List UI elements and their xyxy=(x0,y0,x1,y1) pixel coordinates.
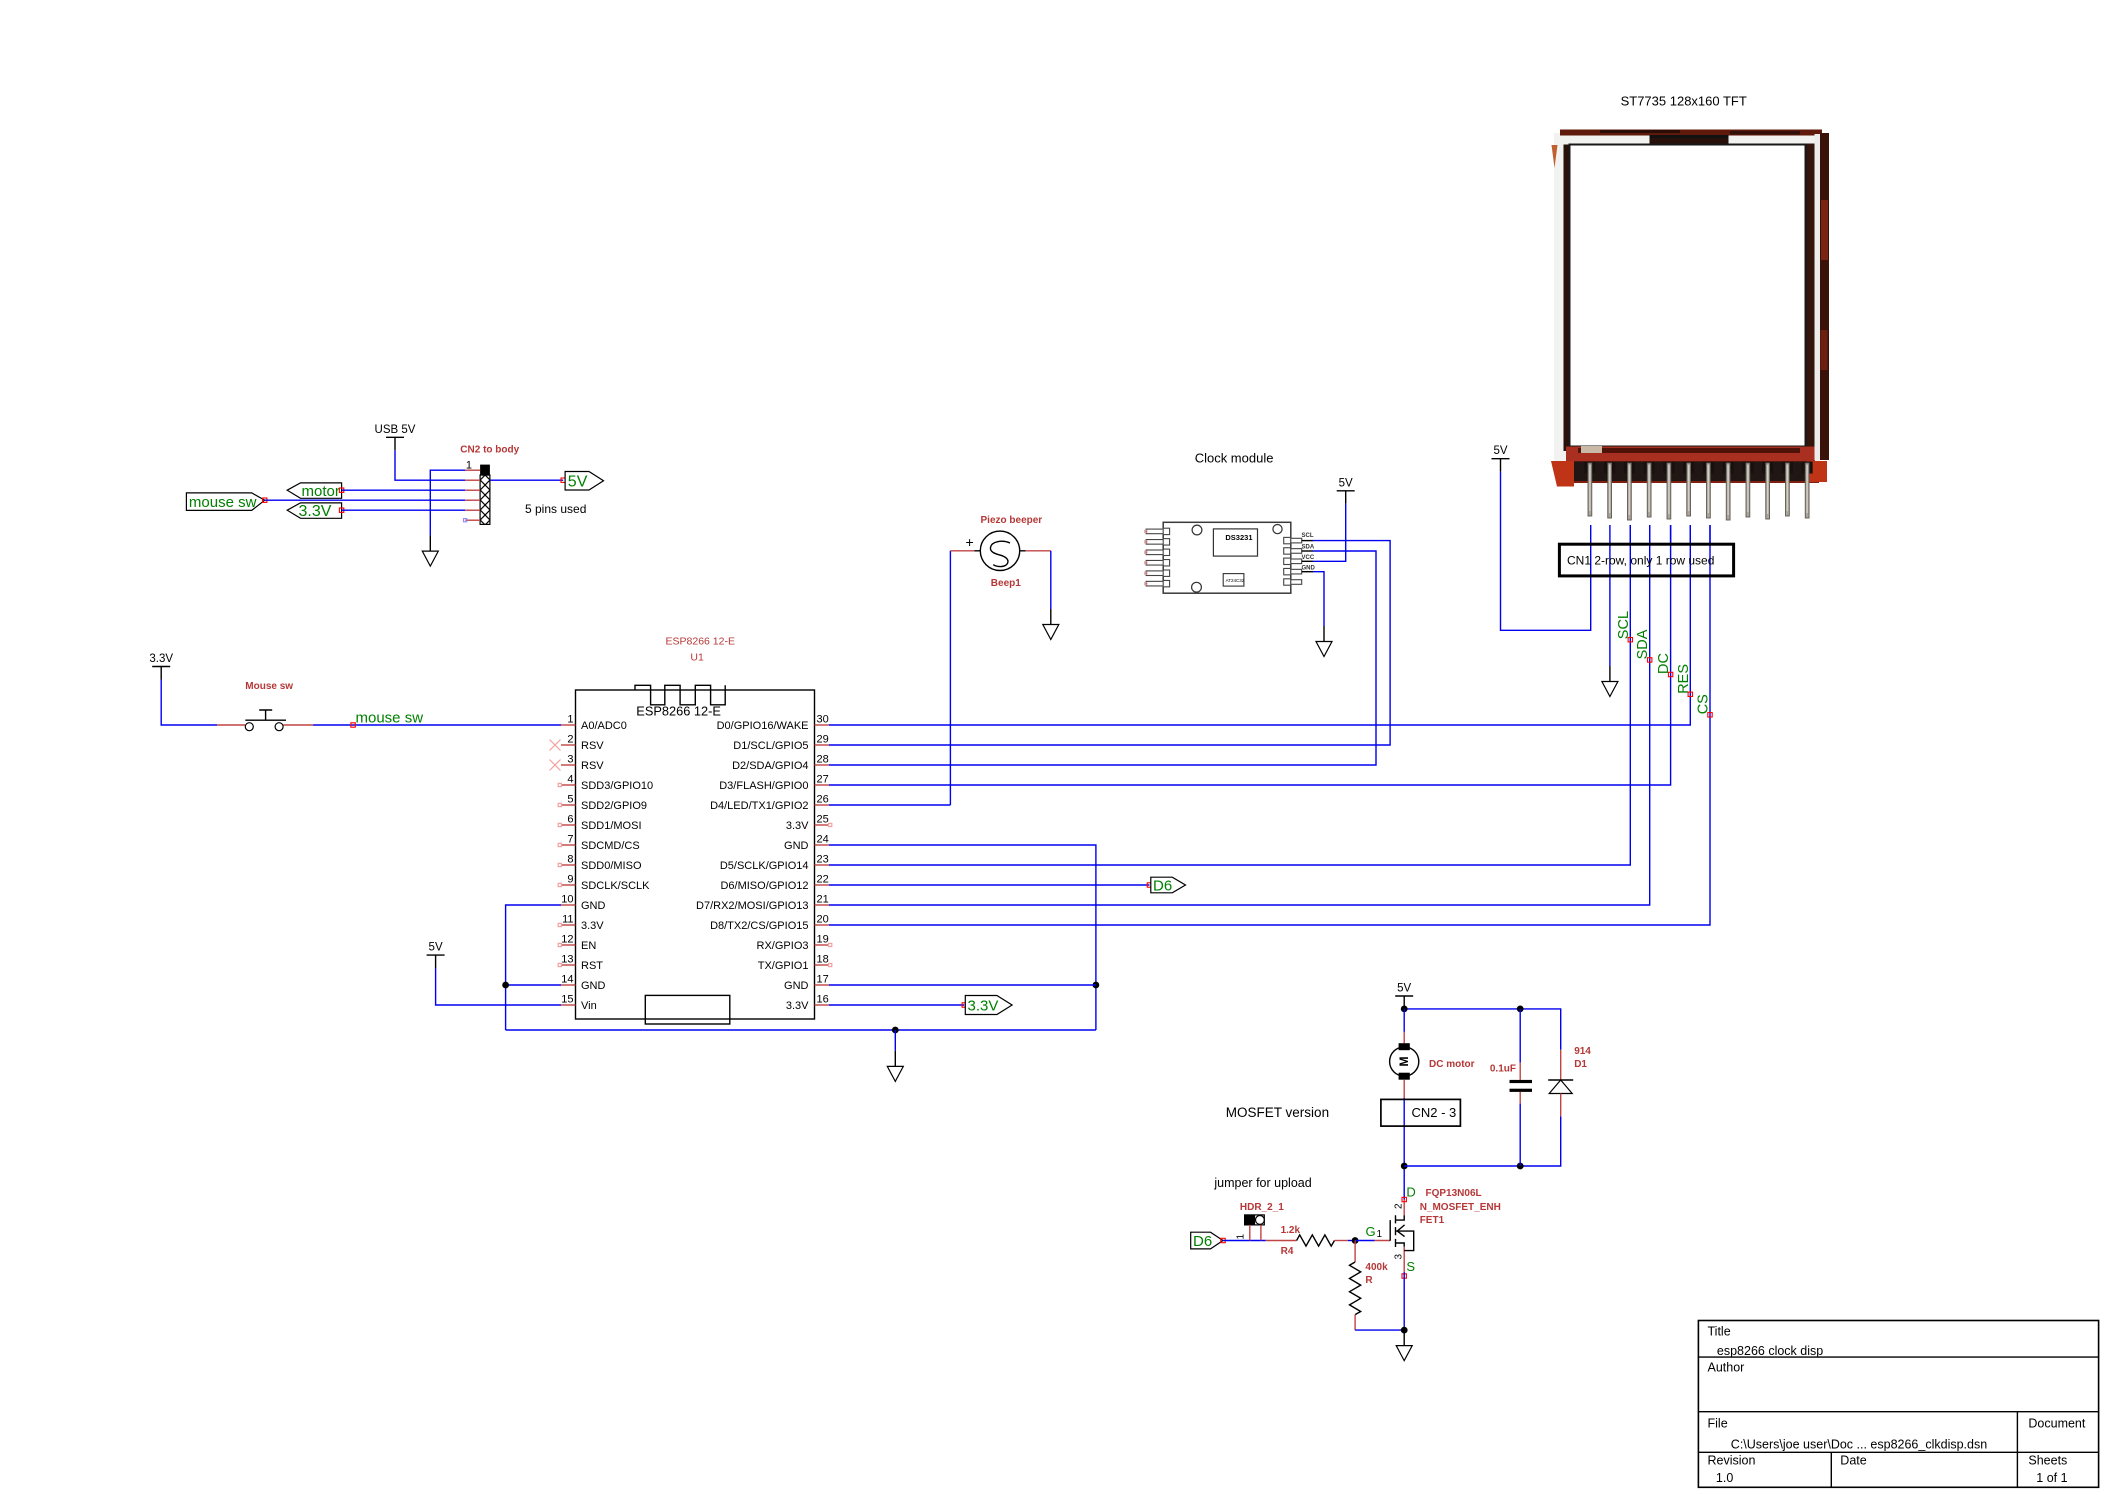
svg-text:D: D xyxy=(1406,1185,1415,1200)
wire net SDA(I2C): U1 pin28 to clock module xyxy=(829,551,1376,765)
wire U1 pin14 GND xyxy=(506,984,561,986)
power symbol USB 5V xyxy=(375,424,416,451)
wire switch to U1 pin1 xyxy=(313,724,561,726)
svg-text:Clock module: Clock module xyxy=(1195,451,1274,466)
svg-text:18: 18 xyxy=(817,954,829,966)
net tag motor xyxy=(287,483,341,500)
wire mouse sw tag to CN2 pin4 xyxy=(265,499,466,501)
title block xyxy=(1698,1321,2098,1488)
connection point 3.3V tag xyxy=(339,508,343,512)
power symbol 5V clock xyxy=(1337,477,1355,504)
svg-text:HDR_2_1: HDR_2_1 xyxy=(1240,1202,1284,1213)
svg-text:Beep1: Beep1 xyxy=(991,578,1021,589)
svg-text:ST7735 128x160 TFT: ST7735 128x160 TFT xyxy=(1621,94,1747,109)
U1 pin 28 D2/SDA/GPIO4 xyxy=(732,754,829,773)
net tag mouse sw xyxy=(186,493,264,511)
svg-text:DC motor: DC motor xyxy=(1429,1059,1475,1070)
svg-text:RX/GPIO3: RX/GPIO3 xyxy=(757,940,809,952)
junction cap bottom xyxy=(1517,1163,1524,1170)
svg-text:7: 7 xyxy=(567,834,573,846)
connection point D6 tag xyxy=(1147,883,1151,887)
svg-text:1.0: 1.0 xyxy=(1716,1471,1733,1485)
svg-text:5: 5 xyxy=(567,794,573,806)
wire net DC: U1 pin27 to TFT pin5 xyxy=(829,525,1671,785)
junction FET drain rail xyxy=(1401,1163,1408,1170)
svg-text:SDCLK/SCLK: SDCLK/SCLK xyxy=(581,880,650,892)
svg-text:12: 12 xyxy=(561,934,573,946)
svg-text:19: 19 xyxy=(817,934,829,946)
MOSFET FET1 FQP13N06L xyxy=(1366,1185,1501,1275)
U1 pin 17 GND xyxy=(784,974,829,993)
svg-text:22: 22 xyxy=(817,874,829,886)
svg-text:FQP13N06L: FQP13N06L xyxy=(1426,1188,1482,1199)
svg-text:Date: Date xyxy=(1840,1454,1866,1468)
svg-text:S: S xyxy=(1406,1259,1415,1274)
svg-text:SDD3/GPIO10: SDD3/GPIO10 xyxy=(581,780,653,792)
switch Mouse sw xyxy=(217,681,313,731)
svg-text:CN2 - 3: CN2 - 3 xyxy=(1412,1105,1457,1120)
svg-text:1 of 1: 1 of 1 xyxy=(2036,1471,2067,1485)
svg-text:5V: 5V xyxy=(429,942,443,954)
svg-text:Piezo beeper: Piezo beeper xyxy=(981,515,1043,526)
wire 5V to U1 pin15 Vin xyxy=(436,968,561,1005)
svg-text:16: 16 xyxy=(817,994,829,1006)
svg-text:3: 3 xyxy=(1394,1254,1405,1260)
svg-text:C:\Users\joe user\Doc ... esp8: C:\Users\joe user\Doc ... esp8266_clkdis… xyxy=(1731,1438,1987,1452)
wire beeper right to ground xyxy=(1050,551,1052,609)
wire gate node to FET gate xyxy=(1355,1240,1375,1242)
wire net D6: U1 pin22 to tag xyxy=(829,884,1150,886)
svg-text:VCC: VCC xyxy=(1302,555,1315,561)
U1 pin 10 GND xyxy=(561,894,606,913)
svg-text:U1: U1 xyxy=(690,652,704,664)
connector CN2 to body xyxy=(460,445,519,525)
svg-text:N_MOSFET_ENH: N_MOSFET_ENH xyxy=(1420,1202,1501,1213)
svg-text:D0/GPIO16/WAKE: D0/GPIO16/WAKE xyxy=(717,720,809,732)
U1 pin 27 D3/FLASH/GPIO0 xyxy=(719,774,829,793)
DC motor M xyxy=(1390,1009,1475,1098)
clock module DS3231 xyxy=(1145,451,1316,594)
svg-text:13: 13 xyxy=(561,954,573,966)
svg-text:SDD1/MOSI: SDD1/MOSI xyxy=(581,820,642,832)
resistor R 400k xyxy=(1350,1241,1405,1331)
svg-text:D1: D1 xyxy=(1574,1059,1587,1070)
connection point FET drain xyxy=(1402,1197,1406,1201)
svg-text:mouse sw: mouse sw xyxy=(356,710,424,727)
svg-text:9: 9 xyxy=(567,874,573,886)
TFT display module ST7735 photo xyxy=(1551,94,1829,487)
svg-text:SDA: SDA xyxy=(1635,629,1651,659)
svg-text:SDCMD/CS: SDCMD/CS xyxy=(581,840,640,852)
svg-text:1.2k: 1.2k xyxy=(1281,1225,1301,1236)
svg-text:2: 2 xyxy=(567,734,573,746)
svg-text:+: + xyxy=(966,534,974,550)
U1 pin 3 RSV xyxy=(561,754,604,773)
piezo beeper Beep1 xyxy=(950,515,1050,589)
svg-text:RSV: RSV xyxy=(581,740,604,752)
U1 pin 21 D7/RX2/MOSI/GPIO13 xyxy=(696,894,829,913)
svg-text:3.3V: 3.3V xyxy=(786,1000,809,1012)
svg-text:2: 2 xyxy=(1394,1203,1405,1209)
svg-text:SDD0/MISO: SDD0/MISO xyxy=(581,860,642,872)
power symbol 5V TFT xyxy=(1492,445,1510,472)
TFT pin 11 lead xyxy=(1782,462,1793,474)
U1 pin 8 SDD0/MISO xyxy=(561,854,642,873)
wire 3.3V tag to CN2 pin5 xyxy=(342,509,466,511)
svg-text:0.1uF: 0.1uF xyxy=(1490,1064,1516,1075)
junction motor top rail xyxy=(1401,1006,1408,1013)
svg-text:1: 1 xyxy=(1377,1229,1383,1240)
net tag D6 (gate) xyxy=(1191,1232,1223,1250)
svg-text:5 pins used: 5 pins used xyxy=(525,502,586,516)
TFT pin 2 lead xyxy=(1604,462,1615,474)
U1 pin 4 SDD3/GPIO10 xyxy=(561,774,653,793)
U1 pin 5 SDD2/GPIO9 xyxy=(561,794,647,813)
wire net CS: U1 pin20 to TFT pin7 xyxy=(829,525,1710,925)
U1 pin 25 3.3V xyxy=(786,814,829,833)
svg-text:esp8266 clock disp: esp8266 clock disp xyxy=(1717,1344,1823,1358)
svg-text:Mouse sw: Mouse sw xyxy=(245,681,293,692)
power symbol 3.3V switch xyxy=(149,653,173,680)
wire net SCL(I2C): U1 pin29 to clock module xyxy=(829,541,1390,745)
resistor R4 1.2k xyxy=(1281,1225,1356,1257)
U1 pin 7 SDCMD/CS xyxy=(561,834,640,853)
svg-text:3.3V: 3.3V xyxy=(149,653,173,665)
svg-text:27: 27 xyxy=(817,774,829,786)
net tag 5V xyxy=(565,472,603,491)
svg-text:D3/FLASH/GPIO0: D3/FLASH/GPIO0 xyxy=(719,780,808,792)
svg-text:SCL: SCL xyxy=(1302,533,1314,539)
svg-text:D6: D6 xyxy=(1193,1233,1212,1250)
junction cap top xyxy=(1517,1006,1524,1013)
TFT pin 7 lead xyxy=(1703,462,1714,474)
svg-text:D1/SCL/GPIO5: D1/SCL/GPIO5 xyxy=(733,740,808,752)
TFT pin 1 lead xyxy=(1584,462,1595,474)
svg-text:ESP8266 12-E: ESP8266 12-E xyxy=(636,704,721,719)
svg-text:D6/MISO/GPIO12: D6/MISO/GPIO12 xyxy=(720,880,808,892)
svg-text:ESP8266 12-E: ESP8266 12-E xyxy=(666,636,735,648)
U1 pin 9 SDCLK/SCLK xyxy=(561,874,650,893)
wire motor tag to CN2 pin3 xyxy=(342,489,466,491)
wire net TFT SCL: U1 pin23 to TFT pin3 xyxy=(829,525,1630,865)
svg-text:21: 21 xyxy=(817,894,829,906)
wire U1 pin24 GND right xyxy=(829,845,1096,1030)
wire 5V to TFT pin1 xyxy=(1501,472,1591,631)
diode D1 914 xyxy=(1548,1046,1591,1116)
svg-text:DS3231: DS3231 xyxy=(1225,533,1252,542)
wire bottom rail to diode xyxy=(1404,1116,1561,1166)
U1 pin 14 GND xyxy=(561,974,606,993)
wire clock GND to ground xyxy=(1313,572,1324,626)
U1 pin 13 RST xyxy=(561,954,603,973)
U1 pin 18 TX/GPIO1 xyxy=(758,954,829,973)
wire 5V rail to diode xyxy=(1404,1009,1561,1050)
jumper HDR_2_1 xyxy=(1236,1202,1285,1241)
svg-text:10: 10 xyxy=(561,894,573,906)
svg-text:R: R xyxy=(1365,1275,1373,1286)
svg-text:FET1: FET1 xyxy=(1420,1215,1445,1226)
svg-text:GND: GND xyxy=(1302,566,1316,572)
U1 pin 16 3.3V xyxy=(786,994,829,1013)
svg-text:GND: GND xyxy=(581,980,606,992)
net tag 3.3V (pin16) xyxy=(965,996,1012,1015)
ground FET source xyxy=(1396,1330,1412,1361)
U1 pin 23 D5/SCLK/GPIO14 xyxy=(720,854,829,873)
svg-text:1: 1 xyxy=(567,714,573,726)
wire net beeper: U1 pin26 up to beeper xyxy=(829,551,950,805)
U1 pin 26 D4/LED/TX1/GPIO2 xyxy=(710,794,829,813)
unconnected pin marker CN2 pin6 xyxy=(464,519,467,522)
U1 pin 12 EN xyxy=(561,934,596,953)
svg-text:400k: 400k xyxy=(1365,1262,1388,1273)
svg-text:A0/ADC0: A0/ADC0 xyxy=(581,720,627,732)
wire D6 to R4 xyxy=(1223,1240,1266,1242)
U1 pin 2 RSV xyxy=(561,734,604,753)
U1 pin 30 D0/GPIO16/WAKE xyxy=(717,714,829,733)
TFT pin 12 lead xyxy=(1802,462,1813,474)
wire net RES: U1 pin30 to TFT pin6 xyxy=(829,525,1690,725)
net tag D6 xyxy=(1151,877,1186,894)
svg-text:4: 4 xyxy=(567,774,573,786)
svg-text:EN: EN xyxy=(581,940,596,952)
svg-text:RST: RST xyxy=(581,960,603,972)
svg-text:RES: RES xyxy=(1676,664,1692,694)
U1 pin 20 D8/TX2/CS/GPIO15 xyxy=(710,914,829,933)
svg-text:15: 15 xyxy=(561,994,573,1006)
svg-text:SDD2/GPIO9: SDD2/GPIO9 xyxy=(581,800,647,812)
svg-text:17: 17 xyxy=(817,974,829,986)
svg-text:D7/RX2/MOSI/GPIO13: D7/RX2/MOSI/GPIO13 xyxy=(696,900,808,912)
TFT pin 4 lead xyxy=(1644,462,1655,474)
wire 3.3V to switch xyxy=(161,680,217,726)
svg-text:motor: motor xyxy=(302,483,340,500)
svg-text:26: 26 xyxy=(817,794,829,806)
wire U1 pin16 3.3V to tag xyxy=(829,1004,964,1006)
svg-text:CS: CS xyxy=(1696,694,1712,714)
junction pin14 GND xyxy=(502,982,509,989)
svg-text:914: 914 xyxy=(1574,1046,1591,1057)
svg-text:SCL: SCL xyxy=(1616,611,1632,639)
ground main xyxy=(887,1051,903,1082)
svg-text:5V: 5V xyxy=(1493,445,1507,457)
ground clock xyxy=(1316,626,1332,657)
TFT pin 9 lead xyxy=(1742,462,1753,474)
svg-text:23: 23 xyxy=(817,854,829,866)
U1 pin 15 Vin xyxy=(561,994,597,1013)
wire CN2 to 5V tag xyxy=(490,479,563,481)
junction source node xyxy=(1401,1327,1408,1334)
TFT pin 8 lead xyxy=(1723,462,1734,474)
connection point motor tag xyxy=(339,488,343,492)
svg-text:Sheets: Sheets xyxy=(2028,1454,2067,1468)
svg-text:30: 30 xyxy=(817,714,829,726)
U1 pin 6 SDD1/MOSI xyxy=(561,814,642,833)
wires TFT pin verticals through CN1 box xyxy=(1591,525,1710,576)
junction gate node xyxy=(1352,1237,1359,1244)
svg-text:11: 11 xyxy=(562,914,573,926)
power symbol 5V motor xyxy=(1395,983,1413,1010)
TFT pin 6 lead xyxy=(1683,462,1694,474)
U1 pin 11 3.3V xyxy=(561,914,604,933)
connection point 5V tag xyxy=(561,478,565,482)
net tag 3.3V (CN2) xyxy=(287,503,341,520)
svg-text:R4: R4 xyxy=(1281,1246,1294,1257)
svg-text:Vin: Vin xyxy=(581,1000,597,1012)
svg-text:jumper for upload: jumper for upload xyxy=(1213,1176,1311,1190)
svg-text:5V: 5V xyxy=(568,474,588,491)
ground TFT xyxy=(1602,666,1618,697)
wire U1 pin17 GND right xyxy=(829,984,1096,986)
wire ground bus below U1 xyxy=(506,1029,1096,1031)
connection point D6 gate tag xyxy=(1221,1238,1225,1242)
svg-text:3.3V: 3.3V xyxy=(968,997,999,1014)
U1 pin 24 GND xyxy=(784,834,829,853)
svg-text:5V: 5V xyxy=(1339,477,1353,489)
svg-text:Document: Document xyxy=(2028,1417,2085,1431)
svg-text:5V: 5V xyxy=(1397,983,1411,995)
svg-text:20: 20 xyxy=(817,914,829,926)
svg-text:GND: GND xyxy=(784,980,809,992)
svg-text:USB 5V: USB 5V xyxy=(375,424,416,436)
ground beeper xyxy=(1043,609,1059,640)
svg-text:14: 14 xyxy=(561,974,573,986)
svg-text:DC: DC xyxy=(1656,653,1672,674)
connection point 3.3V out tag xyxy=(962,1003,966,1007)
svg-text:6: 6 xyxy=(567,814,573,826)
wire FET source to ground xyxy=(1403,1272,1405,1330)
TFT pin 5 lead xyxy=(1663,462,1674,474)
wire U1 pin10 GND down xyxy=(506,905,561,1030)
label box CN1 xyxy=(1559,544,1733,576)
svg-text:3.3V: 3.3V xyxy=(786,820,809,832)
TFT pin 10 lead xyxy=(1762,462,1773,474)
wire ground stub xyxy=(894,1030,896,1051)
wire motor to FET drain xyxy=(1403,1098,1405,1200)
wire TFT pin2 to ground xyxy=(1609,525,1611,666)
svg-text:3.3V: 3.3V xyxy=(299,503,332,520)
wire CN2 pin1 to ground xyxy=(430,470,465,535)
label box CN2 - 3 xyxy=(1381,1099,1461,1126)
junction ground bus xyxy=(892,1027,899,1034)
svg-text:D5/SCLK/GPIO14: D5/SCLK/GPIO14 xyxy=(720,860,809,872)
svg-text:TX/GPIO1: TX/GPIO1 xyxy=(758,960,809,972)
ground CN2 xyxy=(422,536,438,567)
svg-text:M: M xyxy=(1397,1057,1411,1067)
wire USB5V to CN2 pin2 xyxy=(395,450,465,480)
svg-text:GND: GND xyxy=(581,900,606,912)
svg-text:SDA: SDA xyxy=(1302,545,1315,551)
svg-text:3.3V: 3.3V xyxy=(581,920,604,932)
svg-text:CN1 2-row, only 1 row used: CN1 2-row, only 1 row used xyxy=(1567,554,1714,568)
svg-text:File: File xyxy=(1708,1417,1728,1431)
connection point FET source xyxy=(1402,1274,1406,1278)
connection point mouse sw tag xyxy=(263,498,267,502)
svg-text:MOSFET version: MOSFET version xyxy=(1226,1105,1329,1120)
svg-text:CN2 to body: CN2 to body xyxy=(460,445,519,456)
svg-text:24: 24 xyxy=(817,834,829,846)
wire 5V to clock VCC xyxy=(1313,504,1346,562)
U1 pin 22 D6/MISO/GPIO12 xyxy=(720,874,829,893)
svg-text:Author: Author xyxy=(1708,1361,1745,1375)
svg-text:Revision: Revision xyxy=(1708,1454,1756,1468)
connection point mouse sw label xyxy=(351,723,355,727)
svg-text:29: 29 xyxy=(817,734,829,746)
svg-text:8: 8 xyxy=(567,854,573,866)
svg-text:25: 25 xyxy=(817,814,829,826)
U1 pin 1 A0/ADC0 xyxy=(561,714,627,733)
capacitor 0.1uF xyxy=(1490,1009,1532,1166)
svg-text:RSV: RSV xyxy=(581,760,604,772)
power symbol 5V Vin xyxy=(427,942,445,969)
svg-text:D2/SDA/GPIO4: D2/SDA/GPIO4 xyxy=(732,760,808,772)
svg-text:D6: D6 xyxy=(1153,877,1172,894)
U1 pin 29 D1/SCL/GPIO5 xyxy=(733,734,829,753)
svg-text:GND: GND xyxy=(784,840,809,852)
wire net TFT SDA: U1 pin21 to TFT pin4 xyxy=(829,525,1650,905)
svg-text:G: G xyxy=(1366,1224,1376,1239)
svg-text:mouse sw: mouse sw xyxy=(189,494,257,511)
svg-text:D8/TX2/CS/GPIO15: D8/TX2/CS/GPIO15 xyxy=(710,920,808,932)
svg-text:AT24C32: AT24C32 xyxy=(1226,578,1245,583)
svg-text:1: 1 xyxy=(1236,1234,1247,1240)
svg-text:3: 3 xyxy=(567,754,573,766)
svg-text:28: 28 xyxy=(817,754,829,766)
IC U1 ESP8266 12-E body xyxy=(576,636,815,1025)
TFT pin 3 lead xyxy=(1624,462,1635,474)
svg-text:Title: Title xyxy=(1708,1325,1731,1339)
U1 pin 19 RX/GPIO3 xyxy=(757,934,829,953)
svg-text:D4/LED/TX1/GPIO2: D4/LED/TX1/GPIO2 xyxy=(710,800,808,812)
junction pin17 GND xyxy=(1093,982,1100,989)
